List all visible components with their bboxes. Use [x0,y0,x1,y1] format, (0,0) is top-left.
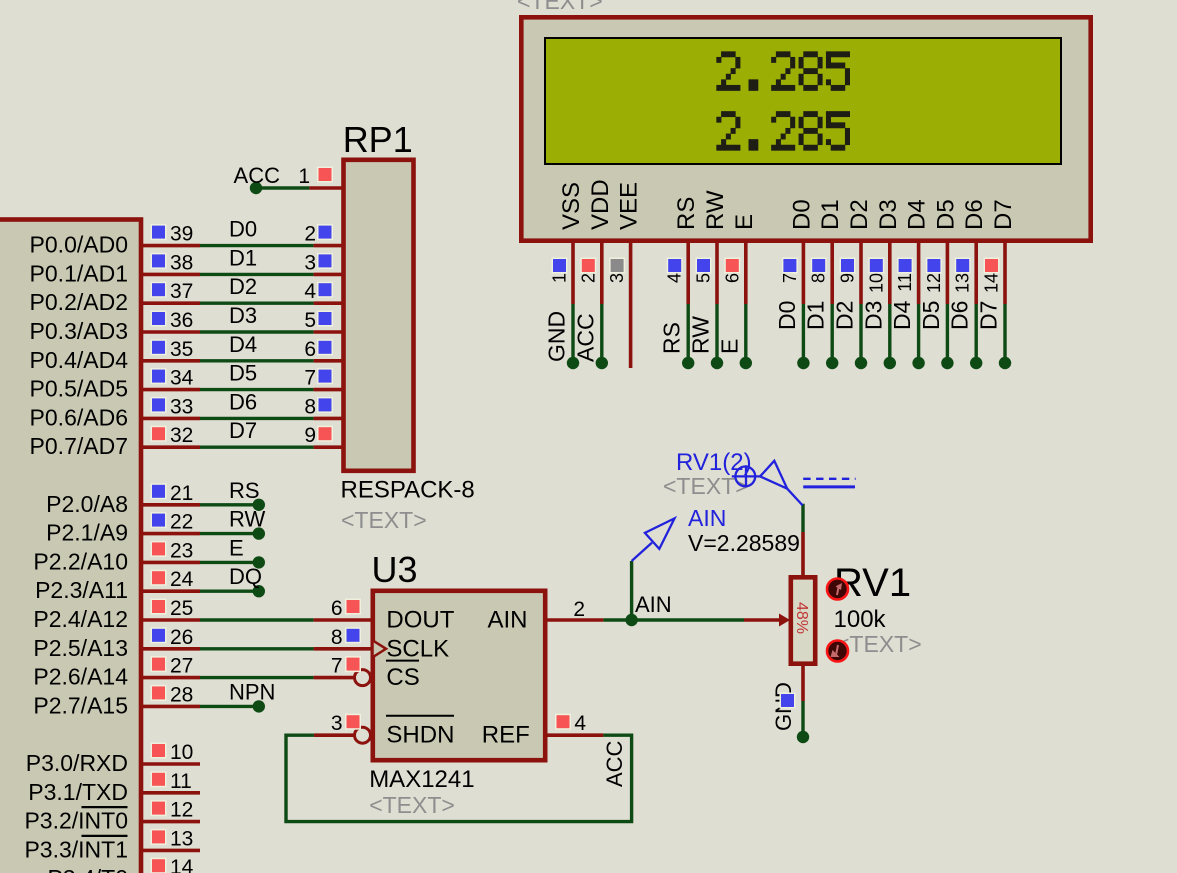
svg-text:1: 1 [298,165,310,188]
svg-text:7: 7 [331,655,343,678]
svg-text:22: 22 [170,511,193,534]
svg-text:3: 3 [331,712,343,735]
svg-text:ACC: ACC [234,163,281,188]
svg-text:2: 2 [578,273,598,283]
svg-text:5: 5 [304,309,316,332]
svg-text:13: 13 [170,827,193,850]
svg-text:P0.7/AD7: P0.7/AD7 [30,433,128,459]
svg-text:D3: D3 [875,199,902,230]
svg-text:9: 9 [838,273,858,283]
svg-text:E: E [716,339,742,354]
svg-text:RS: RS [229,478,260,503]
svg-text:RESPACK-8: RESPACK-8 [341,477,475,504]
svg-text:D1: D1 [803,301,829,330]
svg-text:26: 26 [170,626,193,649]
svg-text:AIN: AIN [635,592,672,617]
svg-text:P2.2/A10: P2.2/A10 [33,548,128,574]
svg-text:P0.0/AD0: P0.0/AD0 [30,232,128,258]
svg-text:P3.4/T0: P3.4/T0 [47,865,128,873]
svg-text:MAX1241: MAX1241 [369,766,474,793]
svg-text:7: 7 [780,273,800,283]
svg-text:P2.4/A12: P2.4/A12 [33,606,128,632]
svg-text:E: E [229,535,244,560]
svg-text:9: 9 [304,424,316,447]
svg-text:P3.0/RXD: P3.0/RXD [26,750,128,776]
svg-text:P0.6/AD6: P0.6/AD6 [30,404,128,430]
svg-text:D1: D1 [229,245,257,270]
svg-text:3: 3 [607,273,627,283]
svg-text:D5: D5 [229,361,257,386]
svg-text:5: 5 [694,273,714,283]
svg-text:GND: GND [544,311,570,362]
svg-text:11: 11 [170,770,192,793]
svg-text:P2.7/A15: P2.7/A15 [33,692,128,718]
svg-text:21: 21 [170,482,193,505]
svg-text:P2.6/A14: P2.6/A14 [33,664,128,690]
svg-text:D5: D5 [918,301,944,330]
svg-text:P3.3/INT1: P3.3/INT1 [24,836,128,862]
svg-text:1: 1 [550,273,570,283]
svg-text:6: 6 [722,273,742,283]
svg-text:DQ: DQ [229,564,262,589]
svg-text:48%: 48% [793,602,810,634]
svg-text:<TEXT>: <TEXT> [341,507,427,533]
svg-text:D4: D4 [889,300,915,330]
svg-text:24: 24 [170,568,194,591]
svg-text:P2.5/A13: P2.5/A13 [33,635,128,661]
svg-text:VSS: VSS [558,182,585,230]
svg-text:D3: D3 [860,301,886,330]
svg-text:8: 8 [304,395,316,418]
svg-text:3: 3 [304,251,316,274]
svg-text:D0: D0 [229,217,257,242]
svg-text:27: 27 [170,655,193,678]
svg-text:RW: RW [688,316,714,354]
svg-text:P0.3/AD3: P0.3/AD3 [30,318,128,344]
svg-text:P3.2/INT0: P3.2/INT0 [24,808,128,834]
svg-text:6: 6 [331,597,343,620]
svg-text:25: 25 [170,597,193,620]
svg-text:14: 14 [170,856,194,873]
svg-text:35: 35 [170,338,193,361]
svg-text:D6: D6 [229,389,257,414]
svg-text:P0.4/AD4: P0.4/AD4 [30,347,129,373]
svg-text:23: 23 [170,539,193,562]
svg-text:P3.1/TXD: P3.1/TXD [28,779,128,805]
svg-text:RW: RW [229,507,265,532]
svg-text:D5: D5 [932,199,959,230]
svg-text:CS: CS [386,664,419,691]
svg-text:E: E [731,214,758,230]
svg-text:10: 10 [866,273,886,293]
svg-text:D2: D2 [229,274,257,299]
svg-text:34: 34 [170,367,194,390]
svg-text:12: 12 [924,273,944,293]
svg-text:D1: D1 [817,199,844,230]
svg-text:D6: D6 [947,301,973,330]
svg-text:SHDN: SHDN [386,722,454,749]
svg-text:AIN: AIN [487,607,527,634]
svg-text:VEE: VEE [616,182,643,230]
svg-text:AIN: AIN [688,505,726,531]
svg-text:D2: D2 [846,199,873,230]
svg-text:39: 39 [170,223,193,246]
svg-text:D7: D7 [990,199,1017,230]
svg-text:2: 2 [304,223,316,246]
svg-text:4: 4 [574,712,586,735]
svg-text:D0: D0 [788,199,815,230]
svg-text:DOUT: DOUT [386,607,454,634]
svg-text:8: 8 [809,273,829,283]
svg-text:RS: RS [659,322,685,354]
svg-text:D7: D7 [976,301,1002,330]
svg-text:11: 11 [895,273,915,292]
svg-text:10: 10 [170,741,193,764]
svg-text:D7: D7 [229,418,257,443]
svg-text:RW: RW [702,190,729,230]
svg-text:14: 14 [982,273,1002,293]
svg-text:32: 32 [170,424,193,447]
svg-text:37: 37 [170,280,193,303]
svg-text:D0: D0 [774,301,800,330]
svg-text:SCLK: SCLK [386,635,449,662]
svg-text:33: 33 [170,395,193,418]
svg-text:2: 2 [573,598,585,621]
svg-text:38: 38 [170,251,193,274]
svg-text:ACC: ACC [602,740,627,787]
svg-text:28: 28 [170,683,193,706]
svg-text:13: 13 [953,273,973,293]
svg-text:P2.1/A9: P2.1/A9 [46,520,128,546]
svg-text:P2.3/A11: P2.3/A11 [35,577,128,603]
svg-text:4: 4 [665,273,685,283]
svg-text:6: 6 [304,338,316,361]
svg-text:P2.0/A8: P2.0/A8 [46,491,128,517]
svg-text:7: 7 [304,367,316,390]
svg-text:P0.2/AD2: P0.2/AD2 [30,289,128,315]
svg-text:D2: D2 [832,301,858,330]
svg-text:36: 36 [170,309,193,332]
svg-text:D4: D4 [229,332,257,357]
svg-text:NPN: NPN [229,679,275,704]
svg-text:8: 8 [331,626,343,649]
svg-text:RS: RS [673,197,700,230]
svg-text:V=2.28589: V=2.28589 [688,530,800,556]
svg-text:REF: REF [482,722,530,749]
svg-text:RV1(2): RV1(2) [676,449,752,476]
svg-text:U3: U3 [372,549,418,590]
svg-text:D4: D4 [904,199,931,230]
svg-text:ACC: ACC [572,313,598,362]
svg-text:D3: D3 [229,303,257,328]
svg-text:<TEXT>: <TEXT> [369,792,455,818]
svg-text:100k: 100k [834,606,887,633]
svg-text:P0.1/AD1: P0.1/AD1 [30,260,128,286]
svg-text:12: 12 [170,799,193,822]
svg-text:RP1: RP1 [343,119,413,160]
svg-text:VDD: VDD [587,179,614,230]
svg-text:P0.5/AD5: P0.5/AD5 [30,376,128,402]
svg-text:4: 4 [304,280,316,303]
svg-text:D6: D6 [961,199,988,230]
svg-text:<TEXT>: <TEXT> [517,0,603,14]
